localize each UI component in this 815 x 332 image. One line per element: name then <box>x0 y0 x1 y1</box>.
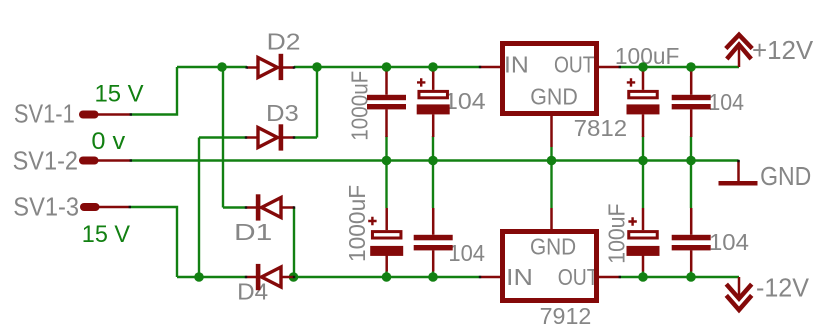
svg-text:GND: GND <box>530 234 576 260</box>
svg-text:15 V: 15 V <box>95 81 144 108</box>
svg-text:OUT: OUT <box>558 264 599 290</box>
svg-text:104: 104 <box>448 240 485 266</box>
svg-text:-12V: -12V <box>756 273 810 303</box>
svg-text:104: 104 <box>708 89 744 115</box>
svg-text:104: 104 <box>709 229 749 255</box>
svg-text:D2: D2 <box>267 28 301 54</box>
svg-text:GND: GND <box>760 161 811 191</box>
svg-text:15 V: 15 V <box>82 221 130 248</box>
svg-text:IN: IN <box>506 264 533 290</box>
svg-text:GND: GND <box>530 84 578 110</box>
svg-text:100uF: 100uF <box>604 204 630 264</box>
svg-text:D1: D1 <box>234 219 272 245</box>
svg-text:+12V: +12V <box>752 35 814 65</box>
svg-text:D4: D4 <box>237 278 268 304</box>
svg-text:7812: 7812 <box>574 115 628 141</box>
svg-text:7912: 7912 <box>540 303 592 329</box>
svg-text:0 v: 0 v <box>91 128 125 155</box>
svg-text:D3: D3 <box>266 100 299 126</box>
svg-text:104: 104 <box>444 88 486 114</box>
svg-text:1000uF: 1000uF <box>344 185 370 262</box>
svg-text:IN: IN <box>504 52 529 78</box>
svg-text:SV1-2: SV1-2 <box>13 146 78 176</box>
svg-text:SV1-1: SV1-1 <box>14 98 75 128</box>
svg-text:OUT: OUT <box>554 52 595 78</box>
svg-text:SV1-3: SV1-3 <box>13 192 79 222</box>
